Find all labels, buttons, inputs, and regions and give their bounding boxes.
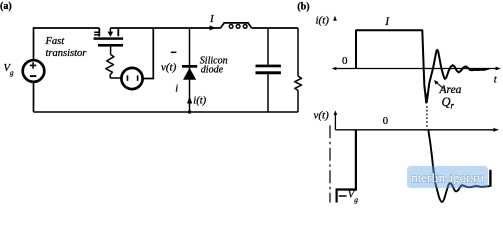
- svg-text:diode: diode: [201, 64, 224, 75]
- bottom rail wire: [34, 111, 299, 113]
- gate stem: [110, 47, 112, 55]
- dotted connector at transient: [426, 106, 428, 129]
- current arrow I on top wire: [210, 25, 216, 30]
- dash-dot boundary line: [329, 125, 331, 202]
- lower time axis: [335, 129, 494, 131]
- body arrow: [109, 28, 111, 32]
- wire top right: [252, 27, 298, 29]
- drain lead: [98, 28, 100, 37]
- wire resistor to driver: [110, 77, 121, 79]
- svg-text:i: i: [175, 83, 178, 94]
- transistor Q1 (fast MOSFET): [94, 28, 124, 55]
- svg-text:(b): (b): [297, 2, 309, 13]
- svg-text:transistor: transistor: [46, 48, 88, 59]
- svg-text:i(t): i(t): [316, 15, 330, 27]
- svg-text:I: I: [209, 13, 215, 25]
- source Vg: [23, 60, 45, 82]
- svg-text:0: 0: [342, 55, 348, 67]
- diode D1 (silicon): [189, 28, 191, 112]
- wire driver to source node: [143, 28, 154, 79]
- diode polarity minus: [171, 51, 177, 53]
- wire Vg bottom to bottom rail: [33, 82, 35, 112]
- svg-text:v(t): v(t): [161, 62, 177, 74]
- waveform i(t): [356, 30, 489, 102]
- upper time axis: [333, 68, 497, 70]
- lower vertical axis: [334, 114, 336, 130]
- svg-text:i(t): i(t): [193, 96, 206, 107]
- svg-text:t: t: [494, 75, 498, 86]
- waveform v(t) initial: [337, 130, 356, 203]
- svg-text:merlin-igor.ru: merlin-igor.ru: [411, 170, 484, 185]
- svg-text:Vg: Vg: [348, 190, 358, 204]
- gate resistor: [106, 55, 114, 79]
- spike merged tail blob: [425, 94, 428, 103]
- svg-text:v(t): v(t): [314, 110, 330, 122]
- wire top-left from Vg to transistor drain: [34, 28, 100, 59]
- svg-text:Vg: Vg: [4, 63, 14, 77]
- source lead: [117, 28, 119, 36]
- label -Vg: [339, 195, 347, 197]
- svg-text:I: I: [384, 16, 390, 28]
- inductor L: [221, 23, 252, 28]
- svg-text:Qr: Qr: [442, 95, 455, 111]
- wire top mid segment: [110, 27, 220, 29]
- capacitor C: [267, 28, 269, 65]
- load resistor R: [297, 28, 299, 76]
- svg-text:Fast: Fast: [45, 36, 66, 47]
- svg-text:Area: Area: [439, 84, 462, 96]
- label Area Qr with arrow: [437, 82, 444, 88]
- junction dot diode-bottom rail: [188, 110, 191, 113]
- svg-text:0: 0: [383, 116, 388, 127]
- svg-text:(a): (a): [0, 1, 12, 12]
- current arrow i(t): [187, 96, 192, 104]
- gate driver source: [121, 68, 142, 89]
- gate bar: [98, 44, 123, 47]
- waveform v(t) transient: [428, 130, 489, 202]
- channel bar: [94, 37, 124, 39]
